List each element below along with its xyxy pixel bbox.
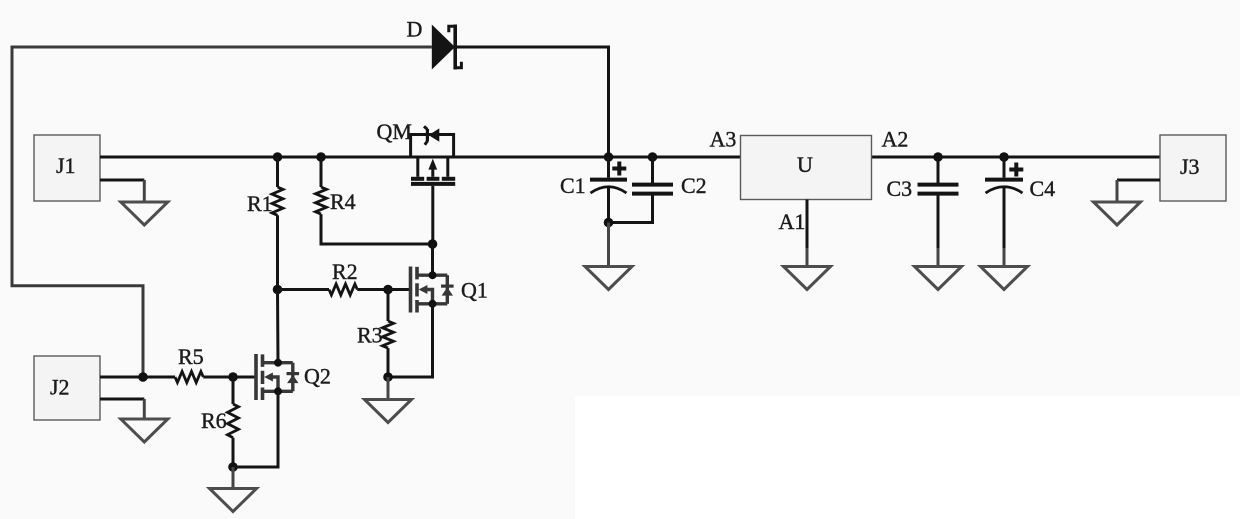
svg-text:Q1: Q1 (461, 278, 488, 303)
ground A1 (784, 267, 831, 290)
connector J2 (34, 356, 100, 420)
wire stub to ground (143, 399, 146, 419)
node Q2 source stub (274, 387, 282, 395)
wire main rail U to J3 (872, 156, 1160, 159)
svg-text:R1: R1 (247, 191, 273, 216)
ground C3 (915, 267, 962, 290)
svg-text:R2: R2 (332, 259, 358, 284)
node main rail R1 tap (273, 152, 283, 162)
capacitor C2 (609, 157, 674, 223)
wire J1 pin2 (100, 179, 144, 182)
node R2 / R3 / Q1 gate (383, 285, 393, 295)
svg-text:J2: J2 (50, 375, 70, 400)
node C1/C2 bottom (604, 218, 614, 228)
wire Q1 gate lead (388, 288, 409, 291)
resistor R6 (232, 377, 235, 404)
svg-text:A3: A3 (710, 127, 737, 152)
wire U pin A1 down (806, 200, 809, 249)
wire stub to ground (1116, 180, 1119, 202)
wire node to Q1 drain (431, 244, 434, 275)
wire R2 left lead (278, 288, 330, 291)
capacitor C3 (918, 157, 959, 267)
resistor R1 (276, 157, 279, 187)
svg-text:Q2: Q2 (304, 364, 331, 389)
transistor Q1 (411, 267, 454, 313)
resistor R4 (320, 157, 323, 187)
ground C1/C2 (585, 267, 632, 290)
svg-text:C3: C3 (887, 176, 913, 201)
resistor R3 (387, 290, 390, 322)
svg-text:U: U (797, 152, 813, 177)
node R6 / Q2 source / ground (228, 462, 238, 472)
svg-text:R3: R3 (357, 323, 383, 348)
resistor R2 (329, 284, 357, 295)
svg-text:C1: C1 (560, 173, 586, 198)
node C2 tap (648, 152, 658, 162)
svg-text:R6: R6 (201, 408, 227, 433)
node R1 / R2 / Q2 drain (273, 285, 283, 295)
svg-text:J3: J3 (1180, 154, 1200, 179)
svg-text:C2: C2 (681, 173, 707, 198)
connector J3 (1160, 135, 1226, 201)
node C4 tap (999, 152, 1009, 162)
ground J2 (121, 419, 168, 442)
wire stub to ground (387, 377, 390, 400)
svg-text:A1: A1 (779, 209, 806, 234)
svg-text:R4: R4 (330, 189, 356, 214)
regulator U (741, 136, 872, 200)
ground C4 (981, 267, 1028, 290)
diode D (432, 25, 462, 70)
node Q1 source stub (429, 300, 437, 308)
node main rail R4 tap (316, 152, 326, 162)
svg-text:A2: A2 (882, 127, 909, 152)
ground J1 (121, 202, 168, 225)
transistor QM (411, 126, 456, 183)
svg-text:R5: R5 (178, 344, 204, 369)
resistor R5 (175, 372, 203, 383)
wire main rail J1 to U (100, 156, 740, 159)
connector J1 (34, 135, 100, 201)
node feedback / J2 pin1 (138, 372, 148, 382)
wire J2 pin2 (100, 398, 144, 401)
wire J3 pin2 (1117, 179, 1160, 182)
capacitor C1 (590, 157, 627, 223)
svg-text:J1: J1 (56, 153, 76, 178)
wire diode to corner and down to C1 node (456, 47, 609, 157)
node C1 tap (604, 152, 614, 162)
node Q1 drain stub (429, 271, 437, 279)
wire top feedback loop (12, 47, 432, 374)
wire stub to ground (607, 223, 610, 267)
node R4 / QM gate / Q1 drain (428, 239, 438, 249)
wire QM gate down to node (431, 186, 434, 244)
transistor Q2 (256, 354, 299, 400)
wire J2 pin1 (100, 376, 175, 379)
ground J3 (1094, 202, 1141, 225)
svg-text:D: D (407, 17, 423, 42)
node R5 / R6 / Q2 gate (228, 372, 238, 382)
capacitor C4 (985, 157, 1023, 267)
node R3 / ground (383, 372, 393, 382)
wire Q2 source down and left to R6 node (233, 391, 278, 467)
svg-text:QM: QM (377, 119, 412, 144)
wire stub to ground (143, 180, 146, 202)
node Q2 drain stub (274, 359, 282, 367)
svg-text:C4: C4 (1030, 176, 1056, 201)
node C3 tap (933, 152, 943, 162)
wire Q1 source down and left to R3 node (388, 304, 433, 377)
ground bottom left (210, 489, 257, 512)
ground Q1 (365, 400, 412, 423)
wire Q2 drain up to R1/R2 node (276, 290, 280, 363)
wire Q2 gate lead (233, 376, 255, 379)
wire stub to ground (232, 467, 235, 489)
